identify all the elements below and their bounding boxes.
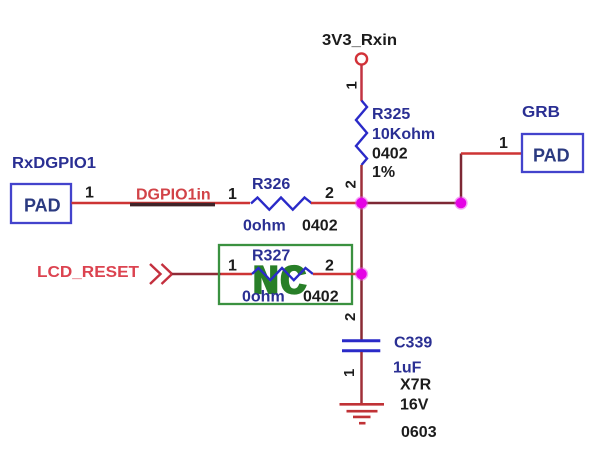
- wire junction A to junction B (horizontal): [362, 202, 462, 205]
- svg-text:16V: 16V: [400, 397, 429, 414]
- NC green box around R327: [219, 245, 352, 304]
- svg-text:1: 1: [499, 135, 508, 152]
- svg-text:X7R: X7R: [400, 377, 432, 394]
- svg-text:0ohm: 0ohm: [243, 218, 286, 235]
- svg-text:2: 2: [325, 185, 334, 202]
- resistor R327 body: [252, 268, 313, 280]
- resistor R325 body: [356, 101, 367, 166]
- svg-text:DGPIO1in: DGPIO1in: [136, 187, 211, 204]
- wire junction C to C339: [360, 274, 363, 340]
- svg-text:1: 1: [85, 185, 94, 202]
- wire to GRB pad: [461, 152, 522, 155]
- svg-text:PAD: PAD: [24, 196, 61, 216]
- svg-text:1: 1: [344, 81, 361, 89]
- junction C dot: [355, 267, 368, 280]
- svg-text:R326: R326: [252, 176, 290, 193]
- svg-text:1uF: 1uF: [393, 360, 422, 377]
- svg-text:PAD: PAD: [533, 146, 570, 166]
- svg-text:2: 2: [343, 180, 360, 188]
- svg-text:RxDGPIO1: RxDGPIO1: [12, 155, 96, 172]
- wire chevron to R327: [172, 273, 221, 276]
- wire R326 pin2 to junction A: [311, 202, 362, 205]
- connector RxDGPIO1 PAD box: [11, 184, 71, 223]
- wire junction A to junction C: [360, 203, 363, 274]
- junction A dot (main node): [355, 196, 368, 209]
- wire RxDGPIO1 pad to R326 pin1: [72, 202, 251, 205]
- off-page connector chevron: [150, 264, 172, 284]
- svg-text:0402: 0402: [303, 289, 339, 306]
- svg-text:1: 1: [341, 369, 358, 377]
- junction B dot: [454, 196, 467, 209]
- svg-text:R325: R325: [372, 106, 410, 123]
- svg-text:GRB: GRB: [522, 104, 560, 121]
- svg-text:1: 1: [228, 258, 237, 275]
- svg-text:2: 2: [325, 258, 334, 275]
- capacitor C339 bottom plate: [342, 349, 380, 352]
- wire R325 pin2 to junction A: [360, 165, 363, 203]
- svg-text:3V3_Rxin: 3V3_Rxin: [322, 32, 397, 49]
- resistor R326 body: [251, 198, 312, 210]
- wire through capacitor to ground: [360, 352, 363, 404]
- connector GRB PAD box: [522, 134, 583, 172]
- wire R327 pin2 to junction C: [313, 273, 362, 276]
- wire power circle to R325 pin1: [360, 65, 363, 101]
- svg-text:1%: 1%: [372, 164, 395, 181]
- svg-text:10Kohm: 10Kohm: [372, 126, 435, 143]
- svg-text:0603: 0603: [401, 424, 437, 441]
- svg-text:0402: 0402: [372, 146, 408, 163]
- capacitor C339 top plate: [342, 339, 380, 342]
- svg-text:1: 1: [228, 186, 237, 203]
- svg-text:0ohm: 0ohm: [242, 289, 285, 306]
- svg-text:C339: C339: [394, 335, 432, 352]
- svg-text:2: 2: [342, 313, 359, 321]
- svg-text:0402: 0402: [302, 218, 338, 235]
- power symbol (open circle) 3V3_Rxin: [356, 53, 367, 64]
- ground symbol: [340, 404, 385, 423]
- wire junction B up: [460, 154, 463, 204]
- svg-text:LCD_RESET: LCD_RESET: [37, 264, 139, 281]
- net label DGPIO1in underline: [130, 203, 215, 207]
